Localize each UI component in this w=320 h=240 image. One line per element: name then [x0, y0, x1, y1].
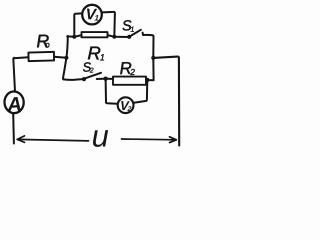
- svg-text:A: A: [6, 93, 23, 116]
- label A: [6, 93, 23, 116]
- node right junction (dot): [151, 56, 155, 60]
- svg-text:u: u: [91, 118, 109, 151]
- svg-text:1: 1: [130, 25, 135, 34]
- wire bottom branch left: [64, 78, 83, 81]
- wire left node vertical: [63, 36, 68, 79]
- switch S2: [82, 77, 86, 81]
- node V1 left tap (dot): [72, 35, 76, 39]
- wire left vertical (corner down to ammeter): [13, 58, 15, 92]
- U arrow right segment: [122, 138, 177, 141]
- resistor R2: [113, 77, 146, 85]
- resistor R1: [82, 32, 108, 37]
- label R0: [36, 31, 50, 51]
- wire R2 to right node: [146, 79, 154, 81]
- wire tap to switch S1: [114, 36, 128, 38]
- voltmeter V1: [82, 5, 102, 25]
- wire below ammeter: [12, 114, 15, 144]
- svg-text:2: 2: [129, 67, 135, 77]
- svg-text:o: o: [45, 39, 50, 49]
- svg-text:2: 2: [126, 106, 131, 113]
- wire S1 to right node corner: [148, 35, 154, 58]
- label U: [91, 118, 109, 153]
- wire tap to R2: [106, 78, 113, 80]
- label S1: [122, 18, 135, 35]
- switch S1: [127, 35, 131, 39]
- node junction left (dot): [64, 56, 68, 60]
- label R1: [87, 42, 105, 63]
- ammeter A: [4, 91, 25, 114]
- svg-text:2: 2: [89, 67, 94, 74]
- node V2 right tap (dot): [145, 78, 149, 82]
- wire R0 to left node: [54, 56, 66, 59]
- wire left horizontal from corner to R0: [14, 57, 29, 58]
- U arrow left segment: [17, 139, 88, 141]
- wire tap to R1: [74, 35, 80, 36]
- voltmeter V2 wires: [106, 79, 117, 104]
- node V2 left tap (dot): [103, 77, 107, 81]
- resistor R0: [28, 52, 54, 61]
- label S2: [82, 59, 94, 74]
- wire R1 to V1 right tap: [109, 35, 115, 36]
- wire junction to far right rail: [153, 57, 179, 146]
- label R2: [119, 59, 135, 78]
- voltmeter V1 wires: [74, 13, 82, 36]
- voltmeter V2: [118, 97, 134, 113]
- wire right node down to bottom branch: [152, 58, 154, 80]
- node V1 right tap (dot): [112, 35, 116, 39]
- svg-text:1: 1: [100, 52, 105, 62]
- wire top branch left: [67, 35, 74, 37]
